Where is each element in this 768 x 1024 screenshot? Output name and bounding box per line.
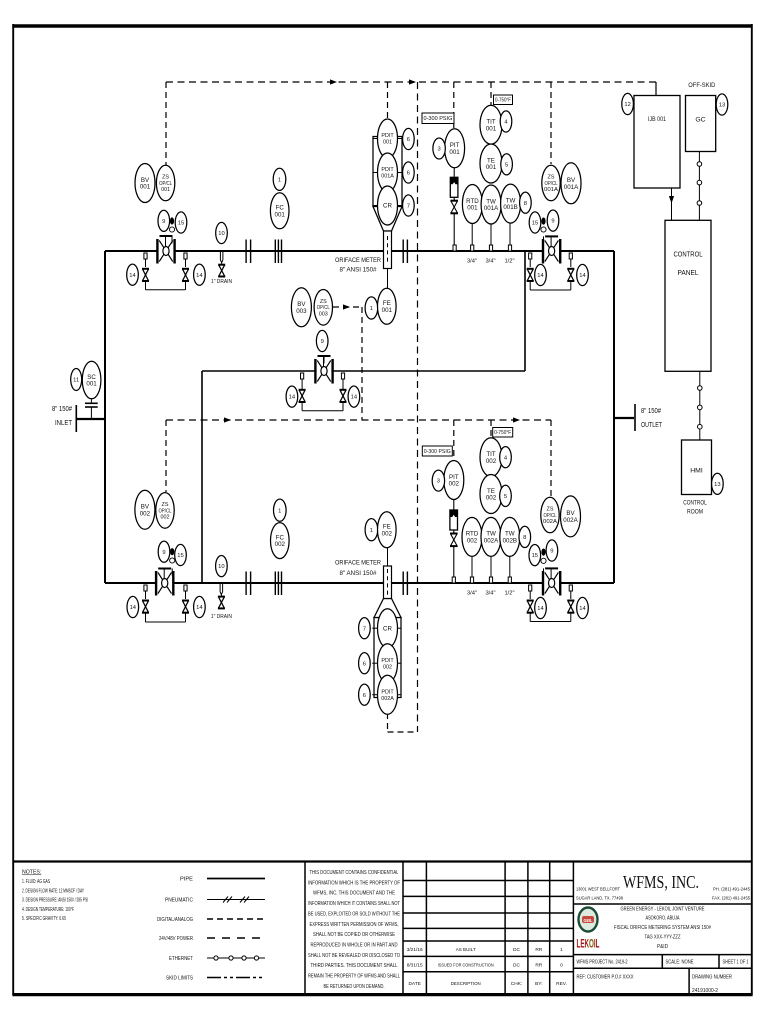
svg-text:8: 8 [523, 535, 526, 541]
svg-text:15: 15 [532, 553, 538, 559]
instrument bubble FE 001 [378, 288, 397, 324]
note circle 1 above FC 002 [274, 499, 287, 521]
svg-text:0-750°F: 0-750°F [494, 430, 511, 436]
wire train 2 main pipe [105, 582, 614, 584]
svg-text:001: 001 [275, 211, 286, 218]
svg-text:002: 002 [449, 481, 460, 488]
arrow on ZS 003 signal line [343, 304, 350, 309]
inlet flange bar [75, 405, 77, 432]
instrument bubble ZS OP/CL 003 [314, 290, 332, 326]
note circle 14 left bypass BV002A [535, 597, 547, 618]
svg-text:8: 8 [524, 201, 527, 207]
svg-text:CONTROL: CONTROL [674, 250, 703, 259]
legend PNEUMATIC [165, 897, 265, 904]
svg-text:0-750°F: 0-750°F [495, 98, 511, 104]
wire bypass U line BV002A [530, 613, 571, 622]
svg-text:9: 9 [321, 339, 324, 345]
control panel box [665, 220, 711, 371]
svg-text:3/21/16: 3/21/16 [407, 947, 423, 953]
notes text block [22, 870, 88, 923]
svg-text:DRAWING NUMBER: DRAWING NUMBER [692, 975, 732, 981]
instrument bubble TE 001 [480, 144, 502, 183]
svg-text:001: 001 [383, 140, 392, 146]
svg-text:SHALL NOT BE COPIED OR OTHERWI: SHALL NOT BE COPIED OR OTHERWISE [313, 932, 396, 938]
svg-text:BE RETURNED UPON DEMAND.: BE RETURNED UPON DEMAND. [324, 984, 385, 990]
range label 0-300 PSIG train1 [422, 113, 454, 124]
wire circle6 to PDIT002A [372, 694, 377, 696]
svg-text:GEIL: GEIL [584, 918, 593, 923]
svg-text:0: 0 [560, 963, 563, 969]
orifice meter transmitter box train2 [374, 618, 401, 698]
wire bypass drop right BV001 [185, 259, 187, 267]
ball valve BV001 on train1 pipe [157, 236, 174, 264]
bypass valve right of BV001A [567, 269, 574, 281]
svg-text:001A: 001A [544, 187, 558, 193]
svg-text:SHALL NOT BE REVEALED OR DISCL: SHALL NOT BE REVEALED OR DISCLOSED TO [308, 953, 400, 959]
svg-text:14: 14 [351, 395, 358, 401]
flow conditioner triple bars train2 [275, 572, 281, 596]
TW001B tap square [508, 245, 511, 251]
note circle 13 at GC [716, 94, 728, 115]
svg-text:001: 001 [449, 149, 460, 156]
bypass stub square right of BV001A [569, 253, 572, 259]
instrument bubble BV 001A [561, 163, 581, 204]
wire signal drop to ZS 002 [165, 420, 167, 492]
wire bypass drop left BV003 [301, 379, 303, 389]
title block top line [13, 860, 752, 862]
note circle 5 at TE 002 [500, 485, 512, 506]
svg-text:DIGITAL/ANALOG: DIGITAL/ANALOG [157, 917, 193, 923]
flange pair on train1 pipe [246, 240, 251, 264]
project description block [614, 906, 711, 950]
svg-text:OP/CL: OP/CL [544, 513, 557, 519]
instrument bubble TW 002B [500, 517, 520, 556]
instrument bubble TW 002A [481, 517, 501, 556]
instrument bubble RTD 001 [462, 185, 482, 224]
svg-text:001: 001 [86, 381, 97, 388]
svg-text:5. SPECIFIC GRAVITY: 0.65: 5. SPECIFIC GRAVITY: 0.65 [22, 916, 66, 922]
svg-text:P&ID: P&ID [657, 944, 668, 950]
wire bypass drop right BV002 [185, 591, 187, 599]
actuator circle at BV001 valve [169, 227, 174, 232]
bypass valve left of BV002 [142, 601, 149, 613]
instrument bubble PDIT 002A [378, 675, 398, 714]
svg-text:2. DESIGN FLOW RATE: 12 MMSCF: 2. DESIGN FLOW RATE: 12 MMSCF / DAY [22, 888, 84, 894]
instrument bubble FC 001 [270, 193, 289, 229]
svg-text:14: 14 [129, 273, 136, 279]
instrument bubble CR train1 [378, 186, 398, 225]
svg-text:003: 003 [296, 308, 307, 315]
svg-text:14: 14 [196, 273, 203, 279]
instrument bubble PDIT 001A [378, 153, 398, 192]
svg-text:FISCAL ORIFICE METERING SYSTEM: FISCAL ORIFICE METERING SYSTEM ANSI 150# [614, 925, 711, 931]
note circle 1 at FE 002 [365, 519, 378, 541]
svg-text:CR: CR [383, 625, 392, 632]
wire outlet header vertical pipe [613, 251, 615, 583]
wire TW001B to tap [509, 223, 511, 245]
svg-text:DC: DC [513, 947, 520, 953]
bypass valve right of BV002 [182, 601, 189, 613]
wire bypass drop right BV002A [570, 591, 572, 599]
wire TW002A to tap [490, 556, 492, 577]
svg-text:SUGAR LAND, TX. 77498: SUGAR LAND, TX. 77498 [576, 896, 623, 901]
svg-text:INFORMATION WHICH IS THE PROPE: INFORMATION WHICH IS THE PROPERTY OF [308, 880, 400, 886]
TW002B tap square [508, 577, 511, 583]
svg-text:4. DESIGN TEMPERATURE: 100°F: 4. DESIGN TEMPERATURE: 100°F [22, 907, 74, 913]
instrument bubble BV 002A [561, 496, 581, 537]
solenoid dot at BV002 valve [170, 548, 174, 555]
svg-text:6: 6 [407, 137, 410, 143]
instrument bubble SC 001 [82, 361, 101, 399]
range label 0-750F train1 [494, 95, 513, 105]
note circle 9 at BV001 valve [158, 210, 170, 231]
svg-text:OFF-SKID: OFF-SKID [688, 82, 715, 89]
svg-text:ASOKORO, ABUJA: ASOKORO, ABUJA [646, 916, 681, 922]
wire bus drop to IJB 001 [655, 82, 657, 95]
svg-text:PDIT: PDIT [381, 167, 394, 173]
drain valve train2 [218, 597, 225, 609]
flange pair right of meter train1 [403, 240, 407, 264]
svg-text:3: 3 [437, 479, 440, 485]
svg-text:REV.: REV. [556, 981, 567, 987]
svg-text:CR: CR [383, 203, 392, 210]
note circle 15 at BV001 valve [175, 212, 187, 233]
svg-text:INLET: INLET [55, 420, 73, 427]
svg-text:001A: 001A [484, 205, 499, 212]
outlet flange bar [634, 404, 636, 431]
orifice meter internal dashes train1 [387, 236, 389, 264]
note circle 5 at TE 001 [501, 154, 513, 175]
wire signal drop to TIT 002 [490, 420, 492, 437]
svg-text:001: 001 [161, 187, 170, 193]
logo LEKOIL [577, 939, 600, 951]
svg-text:PIPE: PIPE [180, 877, 194, 883]
tick PDIT001 left [373, 138, 378, 140]
svg-text:002: 002 [486, 495, 497, 502]
svg-text:DESCRIPTION: DESCRIPTION [451, 981, 481, 987]
svg-text:24191000-2: 24191000-2 [692, 988, 718, 994]
junction box IJB 001 [634, 96, 680, 189]
title block verticals [305, 862, 573, 995]
wire TW002B to tap [509, 556, 511, 577]
wire inlet stub pipe [76, 418, 105, 420]
svg-text:WFMS, INC. THIS DOCUMENT AND T: WFMS, INC. THIS DOCUMENT AND THE [313, 891, 396, 897]
instrument bubble PDIT 001 [378, 119, 398, 158]
svg-text:ZS: ZS [548, 175, 555, 181]
bypass stub square right of BV003 [341, 373, 344, 379]
instrument bubble BV 001 [135, 164, 155, 203]
note circle 14 left bypass BV003 [286, 386, 298, 407]
svg-text:DC: DC [513, 963, 520, 969]
TW002A tap square [489, 577, 492, 583]
instrument bubble TW 001B [501, 184, 521, 223]
note circle 14 right bypass BV003 [348, 386, 360, 407]
wire circle6 to PDIT002 [372, 662, 377, 664]
note circle 7 at CR train1 [403, 195, 415, 216]
svg-text:IJB 001: IJB 001 [648, 116, 666, 123]
svg-text:8/31/15: 8/31/15 [407, 963, 423, 969]
svg-text:14: 14 [289, 395, 296, 401]
svg-text:1: 1 [278, 508, 281, 514]
note circle 14 right bypass BV002A [577, 597, 589, 618]
svg-text:OUTLET: OUTLET [641, 422, 663, 429]
svg-text:WFMS, INC.: WFMS, INC. [623, 872, 699, 892]
svg-text:OP/CL: OP/CL [545, 181, 558, 187]
svg-text:1. FLUID: AG GAS: 1. FLUID: AG GAS [22, 879, 50, 885]
svg-text:15: 15 [532, 221, 538, 227]
instrument bubble ZS OP/CL 002A [541, 497, 559, 533]
wire train 2 signal bus (dashed) [166, 419, 551, 421]
bypass valve left of BV002A [527, 601, 534, 613]
actuator circle at BV001A valve [541, 227, 546, 232]
legend ETHERNET [169, 956, 265, 962]
revision row AS BUILT [407, 947, 563, 953]
svg-text:3/4": 3/4" [485, 591, 495, 597]
svg-text:OP/CL: OP/CL [159, 181, 172, 187]
wire signal drop to ZS 001A [550, 82, 552, 164]
junction arrow on train2 bus right [513, 417, 520, 422]
svg-text:5: 5 [505, 162, 508, 168]
bypass valve right of BV002A [567, 601, 574, 613]
svg-text:CONTROL: CONTROL [683, 500, 707, 507]
note circle 14 left bypass BV001A [535, 264, 547, 285]
wire signal drop to PIT 002 [453, 420, 455, 461]
bypass stub square right of BV001 [184, 253, 187, 259]
instrument bubble TIT 001 [480, 105, 502, 144]
legend 24V/48V POWER [159, 936, 265, 942]
ball valve BV001A on train1 pipe [543, 236, 560, 263]
svg-text:002: 002 [275, 541, 286, 548]
note circle 12 at IJB 001 [622, 93, 634, 114]
bypass stub square right of BV002 [184, 585, 187, 591]
ball valve BV002 on train2 pipe [156, 569, 173, 596]
solenoid dot at BV002A valve [541, 549, 545, 556]
svg-text:9: 9 [162, 550, 165, 556]
note circle 6 at PDIT 002A [359, 684, 371, 705]
svg-text:3/4": 3/4" [485, 259, 495, 265]
junction arrow on top bus [330, 79, 337, 84]
solenoid dot at BV001 valve [170, 217, 174, 224]
note circle 15 at BV002A valve [529, 545, 541, 566]
flange pair on train2 pipe [246, 572, 251, 596]
wire bypass drop left BV001A [529, 259, 531, 267]
svg-text:002A: 002A [543, 519, 557, 525]
bypass valve left of BV001A [527, 269, 534, 281]
svg-text:0-300 PSIG: 0-300 PSIG [424, 116, 453, 122]
svg-text:NOTES:: NOTES: [22, 870, 41, 876]
legend SKID LIMITS [166, 976, 265, 982]
svg-text:001: 001 [382, 307, 393, 314]
bypass stub square left of BV002 [144, 585, 147, 591]
reference and drawing number row [577, 975, 733, 995]
svg-text:GC: GC [695, 117, 705, 124]
note circle 10 train2 drain [216, 556, 228, 577]
actuator circle at BV002A valve [541, 558, 546, 563]
wire meter to FE 002 [387, 548, 389, 567]
company block dividers [573, 904, 752, 995]
svg-text:14: 14 [130, 605, 137, 611]
solenoid dot at BV001A valve [541, 218, 545, 225]
svg-text:3: 3 [437, 147, 440, 153]
svg-text:7: 7 [363, 626, 366, 632]
note circle 14 right bypass BV001 [194, 264, 206, 285]
confidentiality statement [308, 870, 401, 990]
svg-text:1: 1 [560, 947, 563, 953]
legend PIPE [180, 877, 265, 883]
legend DIGITAL/ANALOG [157, 917, 265, 923]
svg-text:EXPRESS WRITTEN PERMISSION OF: EXPRESS WRITTEN PERMISSION OF WFMS, [310, 922, 399, 928]
drain valve train1 [218, 265, 225, 277]
wire signal drop to TIT 001 [490, 82, 492, 105]
svg-text:HMI: HMI [690, 468, 703, 475]
bypass stub square left of BV001 [144, 253, 147, 259]
bypass stub square left of BV002A [529, 585, 532, 591]
actuator circle at BV002 valve [170, 558, 175, 563]
wire meter to FE 001 [387, 269, 389, 289]
wire bypass drop left BV002A [529, 591, 531, 599]
gas chromatograph box GC [686, 96, 716, 152]
svg-text:BE USED, EXPLOITED OR SOLD WIT: BE USED, EXPLOITED OR SOLD WITHOUT THE [308, 911, 401, 917]
note circle 6 at PDIT 001 [403, 128, 415, 149]
svg-text:PANEL: PANEL [678, 268, 699, 277]
svg-text:THIRD PARTIES. THIS DOCUMENT S: THIRD PARTIES. THIS DOCUMENT SHALL [311, 963, 398, 969]
svg-text:13: 13 [719, 103, 725, 109]
svg-text:THIS DOCUMENT CONTAINS CONFIDE: THIS DOCUMENT CONTAINS CONFIDENTIAL [310, 870, 399, 876]
wire signal drop to PIT 001 [453, 82, 455, 128]
note circle 14 left bypass BV002 [127, 596, 139, 617]
wire crossover line train2 to train1 [202, 251, 525, 583]
svg-text:9: 9 [551, 219, 554, 225]
sample probe capacitor symbol [85, 399, 98, 419]
svg-text:002: 002 [140, 510, 151, 517]
orifice meter internal dashes train2 [387, 569, 389, 596]
note circle 9 at BV001A valve [547, 210, 559, 231]
ball valve BV002A on train2 pipe [543, 568, 560, 595]
svg-text:PDIT: PDIT [381, 133, 394, 139]
svg-text:BY:: BY: [535, 981, 542, 987]
instrument bubble FC 002 [271, 523, 290, 559]
note circle 9 at BV002A valve [546, 540, 558, 561]
svg-text:WFMS PROJECT No. 2419-2: WFMS PROJECT No. 2419-2 [577, 960, 628, 966]
svg-text:8" ANSI 150#: 8" ANSI 150# [340, 570, 377, 577]
wire PDIT001 to circle 6 [398, 138, 403, 140]
svg-text:DATE: DATE [408, 981, 420, 987]
note circle 13 at HMI [712, 473, 724, 494]
tick CR right train2 [397, 627, 401, 629]
svg-text:ETHERNET: ETHERNET [169, 956, 193, 962]
svg-text:3. DESIGN PRESSURE: ANSI 150#: 3. DESIGN PRESSURE: ANSI 150# / 285 PSI [22, 898, 88, 904]
bypass valve right of BV001 [182, 269, 189, 281]
note circle 15 at BV002 valve [175, 544, 187, 565]
note circle 3 at PIT 002 [432, 470, 444, 491]
revision table grid [403, 862, 573, 995]
wire bypass U line BV001A [530, 281, 571, 291]
note circle 9 at BV002 valve [158, 541, 170, 562]
bypass stub square left of BV001A [529, 253, 532, 259]
svg-text:1/2": 1/2" [504, 259, 514, 265]
svg-text:002A: 002A [484, 538, 499, 545]
wire long signal riser (dashed) [417, 82, 419, 732]
wire train 1 main pipe [105, 250, 614, 252]
svg-text:002A: 002A [563, 517, 578, 524]
svg-text:PH. (281) 491-2445: PH. (281) 491-2445 [713, 887, 750, 892]
orifice meter body rect train2 [384, 566, 392, 599]
range label 0-300 PSIG train2 [422, 446, 452, 456]
note circle 4 at TIT 002 [500, 447, 512, 468]
tick PDIT001A left [373, 172, 378, 174]
svg-text:10: 10 [218, 231, 224, 237]
note circle 11 at SC 001 [71, 369, 82, 391]
wire signal from ZS 003 to riser (dashed) [333, 307, 362, 420]
svg-text:002: 002 [383, 664, 392, 670]
tick PDIT002 right [397, 662, 401, 664]
note circle 14 right bypass BV002 [194, 596, 206, 617]
note circle 6 at PDIT 001A [403, 162, 415, 183]
wire CR to circle 7 [398, 205, 403, 207]
svg-text:PNEUMATIC: PNEUMATIC [165, 898, 193, 904]
orifice meter funnel train2 [374, 599, 401, 618]
svg-text:REMAIN THE PROPERTY OF WFMS AN: REMAIN THE PROPERTY OF WFMS AND SHALL [308, 974, 400, 980]
note circle 3 at PIT 001 [433, 138, 445, 159]
svg-text:1: 1 [370, 306, 373, 312]
wire bypass drop left BV001 [145, 259, 147, 267]
note circle 14 right bypass BV001A [577, 264, 589, 285]
junction arrow on train2 bus [224, 417, 231, 422]
wire TW001A to tap [490, 224, 492, 245]
instrument bubble ZS OP/CL 001A [542, 165, 560, 201]
svg-text:002: 002 [161, 515, 170, 521]
wire circle7 to CR train2 [372, 627, 377, 629]
instrument bubble PDIT 002 [378, 644, 398, 683]
instrument bubble PIT 001 [445, 129, 465, 168]
bypass stub square right of BV002A [569, 585, 572, 591]
svg-text:REPRODUCED IN WHOLE OR IN PART: REPRODUCED IN WHOLE OR IN PART AND [311, 943, 398, 949]
wire drain stub train2 [220, 584, 223, 597]
svg-text:0-300 PSIG: 0-300 PSIG [424, 449, 451, 455]
svg-text:15: 15 [177, 553, 183, 559]
svg-text:ROOM: ROOM [687, 509, 703, 516]
instrument bubble PIT 002 [444, 461, 464, 500]
svg-text:15: 15 [178, 221, 184, 227]
svg-text:1/2": 1/2" [504, 591, 514, 597]
svg-text:14: 14 [537, 273, 544, 279]
bypass valve right of BV003 [340, 390, 347, 402]
flow conditioner triple bars train1 [275, 240, 281, 264]
instrument bubble FE 002 [378, 512, 397, 548]
svg-text:6: 6 [363, 693, 366, 699]
PIT001 manifold valve [450, 168, 458, 245]
range label 0-750F train2 [493, 428, 513, 438]
svg-text:TAG XXX-YYY-ZZZ: TAG XXX-YYY-ZZZ [645, 935, 681, 941]
svg-text:1: 1 [370, 528, 373, 534]
svg-text:14: 14 [196, 605, 203, 611]
note circle 8 at TW 001B [520, 192, 532, 213]
PIT002 manifold valve [450, 500, 458, 578]
wire RTD002 to tap [471, 556, 473, 577]
svg-text:PDIT: PDIT [381, 658, 394, 664]
wire bypass drop right BV001A [570, 259, 572, 267]
note circle 10 train1 drain [216, 222, 228, 243]
svg-text:7: 7 [407, 204, 410, 210]
note circle 9 at BV003 valve [316, 330, 328, 351]
svg-text:ORIFACE METER: ORIFACE METER [335, 257, 381, 264]
svg-text:SHEET 1 OF 1: SHEET 1 OF 1 [723, 960, 749, 966]
wire bypass U line BV002 [146, 613, 186, 623]
svg-text:002: 002 [486, 458, 497, 465]
svg-text:12: 12 [624, 102, 630, 108]
project number row [577, 960, 749, 966]
svg-text:001: 001 [486, 164, 497, 171]
